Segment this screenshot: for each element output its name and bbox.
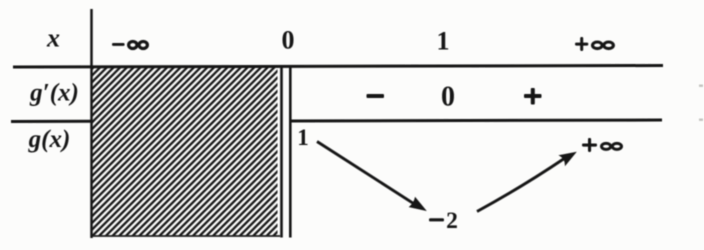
increasing arrow [477, 153, 576, 212]
horizontal line row2/row3 right segment [290, 120, 662, 121]
horizontal line row2/row3 left segment [11, 120, 91, 123]
value +infinity of g: infinity loops [602, 143, 622, 149]
scan speck right edge upper [699, 85, 703, 87]
svg-text:2: 2 [446, 208, 458, 234]
svg-text:g′(x): g′(x) [29, 80, 79, 107]
svg-text:x: x [46, 24, 60, 53]
svg-text:1: 1 [437, 27, 450, 56]
vertical header separator line [90, 9, 93, 238]
decreasing arrow [317, 142, 426, 211]
minimum value -2: minus stroke [429, 218, 444, 221]
minus sign [367, 94, 385, 98]
plus sign [524, 88, 542, 105]
hatch bottom line [91, 235, 280, 237]
hatched forbidden region [92, 67, 278, 236]
value -infinity top: infinity loops [129, 42, 148, 49]
svg-text:1: 1 [297, 125, 309, 150]
scan speck right edge lower [699, 119, 703, 121]
double bar left line at x=0 [280, 66, 283, 238]
double bar right line at x=0 [289, 66, 292, 238]
value +infinity top: plus sign [575, 37, 588, 51]
value +infinity of g: plus sign [582, 138, 597, 152]
horizontal line row1/row2 [13, 66, 663, 68]
value -infinity top: minus stroke [112, 43, 125, 46]
svg-text:g(x): g(x) [28, 126, 71, 153]
svg-text:0: 0 [282, 26, 295, 55]
svg-text:0: 0 [441, 82, 455, 113]
value +infinity top: infinity loops [593, 42, 614, 49]
